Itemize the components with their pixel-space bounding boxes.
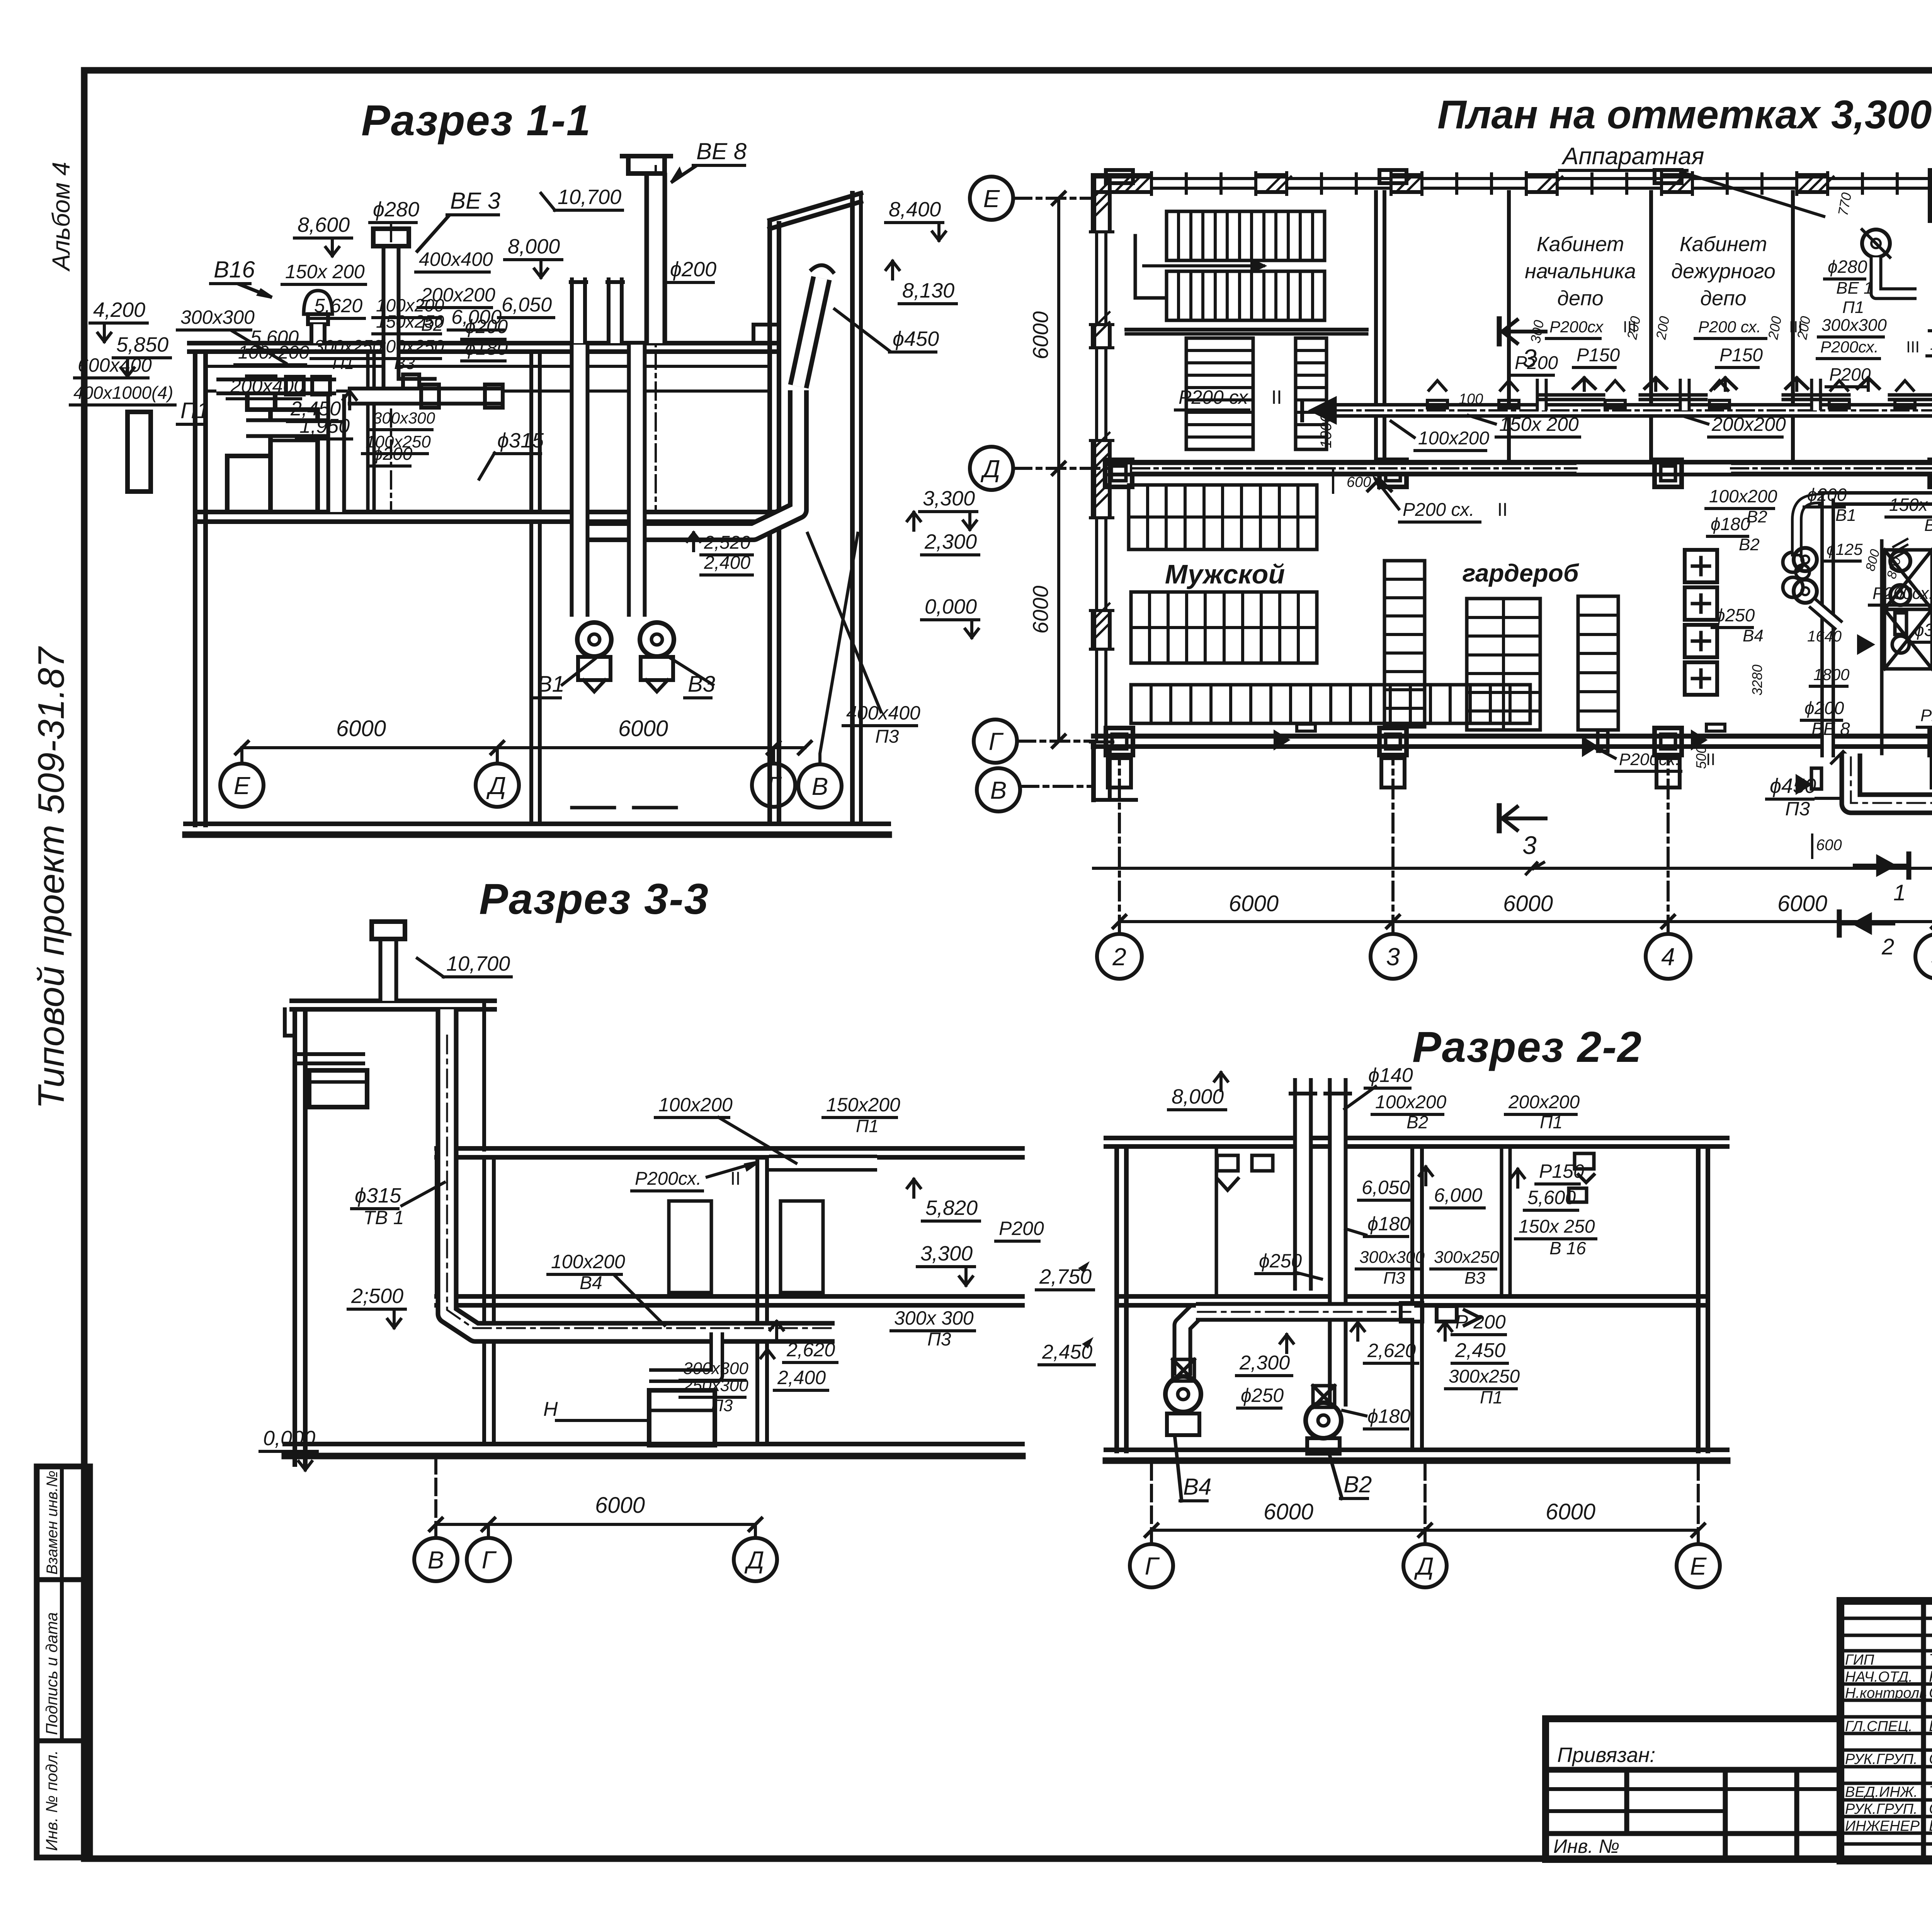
- svg-text:Слободяник: Слободяник: [1929, 1800, 1932, 1817]
- plan centerline dashdot verticals inside: [1094, 867, 1932, 870]
- svg-text:Слободяник: Слободяник: [1929, 1684, 1932, 1701]
- svg-text:В2: В2: [1739, 535, 1760, 554]
- svg-text:ВЕ 8: ВЕ 8: [696, 138, 747, 164]
- title block signature table verticals: [1921, 1601, 1926, 1861]
- svg-text:6000: 6000: [1264, 1499, 1313, 1524]
- svg-text:6000: 6000: [1777, 891, 1827, 916]
- cluster duct elbow arc: [1797, 498, 1818, 551]
- svg-text:ϕ180: ϕ180: [465, 337, 508, 359]
- svg-text:Разрез 2-2: Разрез 2-2: [1412, 1023, 1642, 1071]
- duct VE1 drop: [1876, 257, 1917, 294]
- svg-text:100х200: 100х200: [551, 1251, 625, 1272]
- cut mark 2 bottom tail: [1839, 922, 1893, 925]
- washstand plus boxes muzhskoy: [1685, 550, 1717, 582]
- svg-text:2,400: 2,400: [777, 1367, 826, 1388]
- section 3-3 ground floor: [285, 1442, 1022, 1446]
- corridor duct centerline: [1335, 409, 1932, 412]
- svg-text:Альбом 4: Альбом 4: [47, 162, 75, 272]
- svg-text:Р150: Р150: [1539, 1160, 1584, 1182]
- svg-text:300х250: 300х250: [314, 336, 383, 356]
- svg-text:II: II: [1497, 500, 1508, 520]
- lockers garderob 1: [1467, 599, 1540, 730]
- suspended ceiling lines 1-1: [207, 365, 767, 368]
- section 1-1 left wall: [193, 352, 197, 825]
- section 1-1 interior column E side: [366, 352, 370, 512]
- svg-text:Инв. №: Инв. №: [1553, 1835, 1619, 1857]
- svg-text:РУК.ГРУП.: РУК.ГРУП.: [1845, 1751, 1918, 1767]
- svg-text:Н: Н: [543, 1398, 558, 1420]
- column square D-3: [1379, 460, 1406, 487]
- svg-text:2,450: 2,450: [1455, 1339, 1505, 1362]
- svg-text:100х200: 100х200: [1375, 1092, 1446, 1112]
- plan top wall hatching: [1115, 177, 1130, 192]
- svg-text:ϕ315: ϕ315: [497, 429, 544, 452]
- duct drop to lower floor near left: [327, 394, 346, 512]
- svg-text:Д: Д: [744, 1546, 764, 1574]
- suspended unit box s33: [309, 1070, 367, 1107]
- svg-text:Е: Е: [1690, 1552, 1707, 1580]
- svg-text:ϕ180: ϕ180: [1367, 1213, 1410, 1235]
- svg-text:Троянова: Троянова: [1929, 1783, 1932, 1800]
- supply duct from P1: [246, 418, 336, 438]
- svg-text:В2: В2: [1344, 1471, 1372, 1497]
- svg-text:2,520: 2,520: [704, 532, 750, 553]
- svg-text:П3: П3: [875, 726, 899, 747]
- upper diffuser boxes s22: [1217, 1155, 1238, 1171]
- svg-text:200х400: 200х400: [230, 375, 304, 397]
- section 2-2 partition left upper: [1215, 1146, 1218, 1296]
- svg-text:ϕ125: ϕ125: [1827, 540, 1863, 558]
- svg-text:2: 2: [1881, 934, 1894, 959]
- svg-text:3,300: 3,300: [920, 1242, 973, 1265]
- plan left wall lower corner: [1091, 747, 1096, 800]
- svg-text:300х 300: 300х 300: [894, 1307, 974, 1329]
- plan left wall windows: [1090, 232, 1113, 325]
- ducts S-drop through floor V3: [627, 345, 647, 617]
- svg-text:НАЧ.ОТД.: НАЧ.ОТД.: [1845, 1669, 1913, 1685]
- section 3-3 roof stack: [379, 939, 398, 1001]
- svg-text:6000: 6000: [1503, 891, 1553, 916]
- stair hall lower flight: [1167, 271, 1325, 320]
- svg-text:В4: В4: [1183, 1474, 1211, 1500]
- svg-text:3,300: 3,300: [923, 487, 975, 510]
- svg-text:400х400: 400х400: [846, 702, 920, 724]
- svg-text:Р200сх.: Р200сх.: [1872, 584, 1932, 603]
- ducts S-drop through floor V1: [570, 345, 590, 617]
- stair hall boundary: [1126, 328, 1367, 332]
- privyazan table: [1546, 1719, 1840, 1859]
- svg-text:Р200сх: Р200сх: [1549, 318, 1604, 336]
- svg-text:Р200сх.: Р200сх.: [1619, 750, 1680, 769]
- plan top exterior wall: [1094, 173, 1932, 179]
- svg-text:6,000: 6,000: [1434, 1184, 1482, 1206]
- lockers vertical strip center: [1384, 561, 1425, 727]
- axis circle V: [798, 764, 842, 808]
- mushroom vent V16: [304, 291, 332, 314]
- svg-text:П1: П1: [1540, 1112, 1563, 1132]
- wash fixtures cluster: [1783, 552, 1803, 572]
- plan partition kab1: [1507, 192, 1511, 462]
- plan corridor wall on axis D: [1110, 460, 1932, 464]
- svg-text:Н.контроль: Н.контроль: [1845, 1685, 1927, 1701]
- svg-text:ϕ140: ϕ140: [1368, 1064, 1413, 1087]
- fan pedestals: [580, 678, 611, 682]
- lower duct run at 2.300 level: [1182, 1312, 1196, 1376]
- stack centerlines 1-1: [655, 166, 657, 510]
- svg-text:Мужской: Мужской: [1165, 559, 1285, 589]
- svg-text:В: В: [812, 772, 828, 800]
- svg-text:ϕ450: ϕ450: [893, 327, 939, 350]
- svg-text:300х300: 300х300: [180, 306, 255, 328]
- svg-text:Г: Г: [989, 728, 1004, 755]
- fan V2 s22: [1306, 1403, 1341, 1438]
- axis circle D s33: [734, 1538, 777, 1581]
- roof stack small 2: [607, 277, 624, 343]
- duct 100x200 horizontal at ceiling: [769, 1155, 877, 1172]
- fan V3: [640, 623, 674, 657]
- section 1-1 tall bay right wall: [767, 223, 772, 824]
- svg-text:П1: П1: [332, 354, 354, 373]
- x-chamber left: [1884, 550, 1932, 609]
- svg-text:300х300: 300х300: [683, 1359, 748, 1378]
- svg-text:ϕ280: ϕ280: [1828, 257, 1867, 277]
- svg-text:Типовой проект 509-31.87: Типовой проект 509-31.87: [31, 646, 72, 1109]
- svg-text:Взамен инв.№: Взамен инв.№: [44, 1471, 61, 1575]
- axis circle G: [752, 764, 795, 807]
- svg-text:Разрез 3-3: Разрез 3-3: [479, 875, 709, 923]
- svg-text:1000: 1000: [1318, 414, 1335, 448]
- plan left vertical dim line: [1057, 198, 1060, 741]
- upper duct run 300x300 to V16: [216, 378, 336, 395]
- svg-text:П1: П1: [180, 398, 209, 423]
- axis circle D s22: [1403, 1544, 1447, 1587]
- svg-text:В2: В2: [1406, 1112, 1428, 1132]
- svg-text:Г: Г: [767, 772, 782, 799]
- svg-text:ϕ200: ϕ200: [1804, 698, 1844, 718]
- svg-text:100х200: 100х200: [1709, 486, 1777, 506]
- svg-text:В1: В1: [1924, 516, 1932, 535]
- svg-text:Разрез 1-1: Разрез 1-1: [361, 96, 591, 145]
- svg-text:Инв. № подл.: Инв. № подл.: [43, 1750, 61, 1851]
- svg-text:В3: В3: [1464, 1269, 1485, 1288]
- title block signature rows: [1840, 1617, 1932, 1620]
- svg-text:Р 200: Р 200: [1455, 1311, 1506, 1333]
- plan left wall hatching: [1094, 182, 1109, 197]
- vent stack VE8 with cap: [645, 173, 667, 343]
- axis circle 3: [1371, 934, 1415, 979]
- svg-text:Р200: Р200: [1515, 353, 1558, 373]
- svg-text:150х 200: 150х 200: [285, 261, 365, 282]
- svg-text:10,700: 10,700: [558, 185, 621, 209]
- svg-text:ГИП: ГИП: [1845, 1652, 1874, 1668]
- lockers bottom long row: [1131, 685, 1530, 723]
- svg-text:ВЕД.ИНЖ.: ВЕД.ИНЖ.: [1845, 1784, 1918, 1800]
- section 1-1 tall bay slanted roof: [770, 193, 861, 220]
- svg-text:100х200: 100х200: [238, 342, 309, 363]
- suspended beam under tall roof s33: [295, 1052, 363, 1056]
- svg-text:Воронина: Воронина: [1929, 1817, 1932, 1834]
- roof stacks 2-2: [1293, 1078, 1313, 1142]
- svg-text:ϕ315: ϕ315: [1914, 620, 1932, 640]
- svg-text:150х 200: 150х 200: [1499, 413, 1579, 435]
- plan partition kab3: [1791, 192, 1795, 462]
- vent stack VE3 with cap: [382, 246, 401, 343]
- secondary stair combs: [1186, 338, 1253, 449]
- duct header boxes s22: [1401, 1303, 1422, 1322]
- svg-text:300х300: 300х300: [373, 409, 435, 427]
- section 2-2 ground: [1106, 1448, 1727, 1452]
- svg-text:2,400: 2,400: [704, 553, 750, 573]
- svg-text:Шапильский: Шапильский: [1929, 1718, 1932, 1735]
- svg-text:0,000: 0,000: [263, 1427, 315, 1450]
- svg-text:10,700: 10,700: [446, 952, 510, 975]
- svg-text:ϕ250: ϕ250: [1715, 605, 1755, 625]
- roof overhang left: [285, 1009, 295, 1036]
- section 1-1 roof slab: [189, 341, 777, 345]
- stair landing arrow: [1135, 236, 1167, 298]
- fan V1: [577, 623, 611, 657]
- svg-text:100х200: 100х200: [1418, 428, 1489, 449]
- svg-text:3: 3: [1386, 943, 1400, 971]
- right diffuser box s22: [1575, 1153, 1594, 1169]
- section 3-3 mid floor: [437, 1294, 1022, 1299]
- svg-text:ϕ280: ϕ280: [373, 198, 419, 221]
- branch duct stubs to rooms: [1536, 379, 1548, 410]
- svg-text:6000: 6000: [1229, 891, 1279, 916]
- svg-text:В4: В4: [1743, 626, 1764, 645]
- svg-text:В4: В4: [580, 1273, 602, 1293]
- duct drop long s22: [1328, 1142, 1348, 1407]
- svg-text:400х1000(4): 400х1000(4): [73, 383, 173, 403]
- svg-text:П1: П1: [856, 1116, 879, 1136]
- svg-text:150х250: 150х250: [376, 311, 444, 332]
- column square D-2: [1105, 460, 1132, 487]
- riser triangles G wall: [1275, 732, 1287, 748]
- svg-text:200х200: 200х200: [1711, 413, 1786, 435]
- svg-text:600: 600: [1347, 474, 1371, 490]
- column stubs below G axis: [1108, 758, 1131, 788]
- svg-text:150х 250: 150х 250: [1889, 495, 1932, 515]
- svg-text:300х250: 300х250: [1434, 1248, 1499, 1267]
- section 2-2 mid floor: [1117, 1294, 1708, 1299]
- svg-text:В3: В3: [394, 354, 415, 373]
- svg-text:Р200: Р200: [999, 1218, 1044, 1239]
- section 2-2 column D: [1410, 1146, 1414, 1450]
- lockers row 2 muzhskoy: [1131, 592, 1317, 663]
- svg-text:ϕ180: ϕ180: [1367, 1405, 1410, 1427]
- big duct fi450 from plan to tail: [1851, 754, 1932, 983]
- supply unit P1 top right: [1930, 186, 1932, 221]
- svg-text:8,400: 8,400: [889, 198, 941, 221]
- svg-text:6000: 6000: [595, 1493, 645, 1518]
- cut mark 1 bottom tail: [1855, 864, 1909, 867]
- svg-text:Г: Г: [482, 1546, 497, 1574]
- fitting diagonal small duct: [1812, 603, 1839, 626]
- svg-text:ϕ315: ϕ315: [355, 1184, 401, 1207]
- svg-text:Розенталь: Розенталь: [1929, 1668, 1932, 1685]
- svg-text:500: 500: [1693, 746, 1709, 769]
- svg-text:5,600: 5,600: [1527, 1187, 1576, 1208]
- svg-text:6000: 6000: [1028, 311, 1053, 359]
- svg-text:Р200сх.: Р200сх.: [1920, 706, 1932, 725]
- svg-text:2,300: 2,300: [924, 530, 977, 553]
- svg-text:В: В: [990, 776, 1007, 804]
- axis circle V s33: [414, 1538, 457, 1581]
- svg-text:П3: П3: [1383, 1269, 1405, 1288]
- svg-text:гардероб: гардероб: [1463, 559, 1580, 587]
- lockers row 1 muzhskoy: [1129, 485, 1317, 549]
- svg-text:2,620: 2,620: [786, 1339, 835, 1361]
- svg-text:1,950: 1,950: [299, 415, 350, 437]
- svg-text:8,000: 8,000: [508, 235, 560, 258]
- svg-text:4,200: 4,200: [93, 298, 145, 321]
- diffuser triangle corridor mid: [1368, 479, 1391, 491]
- roof stack small 1: [570, 277, 587, 343]
- svg-text:3280: 3280: [1749, 665, 1765, 696]
- svg-text:6,050: 6,050: [502, 294, 552, 316]
- svg-text:Привязан:: Привязан:: [1557, 1744, 1655, 1767]
- wc partition lines: [1880, 541, 1884, 754]
- axis circle E s22: [1677, 1544, 1720, 1587]
- svg-text:Аппаратная: Аппаратная: [1561, 143, 1704, 170]
- section 1-1 diagonal duct fi450: [798, 278, 821, 386]
- svg-text:Е: Е: [983, 185, 1000, 213]
- svg-text:П3: П3: [1785, 798, 1810, 820]
- svg-text:100х200: 100х200: [1930, 336, 1932, 353]
- diffuser triangles kab rooms: [1573, 378, 1595, 388]
- mid level duct run 1-1: [348, 387, 502, 406]
- column square D-4: [1655, 460, 1682, 487]
- unit H box: [649, 1390, 715, 1445]
- risers on G wall: [1297, 724, 1315, 731]
- svg-text:Р200: Р200: [1829, 364, 1871, 384]
- svg-text:8,600: 8,600: [298, 213, 350, 236]
- bellmouth at duct start: [1312, 399, 1335, 422]
- axis circle 2: [1097, 934, 1142, 979]
- section 2-2 right wall: [1696, 1146, 1701, 1451]
- svg-text:6000: 6000: [618, 716, 668, 741]
- svg-text:Р200сх.: Р200сх.: [1820, 338, 1879, 356]
- svg-text:ϕ200: ϕ200: [670, 258, 716, 281]
- section 1-1 eaves step: [753, 325, 779, 343]
- svg-text:ТВ 1: ТВ 1: [363, 1207, 404, 1228]
- svg-text:ВЕ 1: ВЕ 1: [1836, 279, 1873, 298]
- section 1-1 ground floor: [185, 822, 889, 826]
- svg-text:Д: Д: [980, 455, 1000, 483]
- svg-text:ϕ250: ϕ250: [1259, 1250, 1302, 1272]
- svg-text:6000: 6000: [1546, 1499, 1595, 1524]
- section 1-1 tall bay far wall V: [850, 193, 855, 824]
- fan V4 s22: [1165, 1376, 1201, 1412]
- svg-text:6000: 6000: [1028, 585, 1053, 634]
- svg-text:Р200 сх.: Р200 сх.: [1403, 500, 1475, 520]
- svg-text:2,300: 2,300: [1239, 1352, 1290, 1374]
- svg-text:II: II: [1271, 386, 1282, 408]
- svg-text:ϕ180: ϕ180: [1711, 514, 1750, 534]
- upper interior beam: [435, 1148, 439, 1296]
- cluster duct vertical VE8 zone: [1818, 491, 1932, 506]
- tall bay vertical duct fi450: [583, 390, 798, 532]
- section 3-3 door openings: [669, 1201, 711, 1293]
- plan bottom axis dim line: [1119, 920, 1932, 923]
- svg-text:В 16: В 16: [1549, 1238, 1586, 1258]
- section 2-2 partition upper: [1500, 1146, 1503, 1296]
- svg-text:8,000: 8,000: [1172, 1085, 1224, 1108]
- axis circle G s22: [1130, 1544, 1173, 1587]
- section 1-1 dimension line: [242, 746, 805, 749]
- stair hall upper flight: [1167, 211, 1325, 260]
- svg-text:100: 100: [1459, 391, 1483, 407]
- svg-text:Подпись и дата: Подпись и дата: [43, 1612, 61, 1735]
- svg-text:ϕ200: ϕ200: [1807, 485, 1847, 505]
- svg-text:1640: 1640: [1807, 628, 1842, 645]
- svg-text:6,050: 6,050: [1362, 1177, 1410, 1198]
- svg-text:Слободяник: Слободяник: [1929, 1750, 1932, 1767]
- svg-text:П3: П3: [927, 1329, 951, 1350]
- svg-text:2: 2: [1112, 943, 1126, 971]
- svg-text:ϕ200: ϕ200: [465, 316, 508, 337]
- svg-text:II: II: [730, 1169, 741, 1189]
- svg-text:Д: Д: [486, 772, 506, 799]
- svg-text:1800: 1800: [1813, 665, 1850, 684]
- section 3-3 dim line: [436, 1523, 755, 1526]
- svg-text:300х250: 300х250: [376, 336, 444, 356]
- svg-text:РУК.ГРУП.: РУК.ГРУП.: [1845, 1801, 1918, 1817]
- svg-text:Р200 сх: Р200 сх: [1179, 386, 1249, 408]
- svg-text:депо: депо: [1557, 287, 1604, 310]
- section 2-2 left wall: [1114, 1146, 1119, 1451]
- svg-text:Кабинет: Кабинет: [1537, 233, 1624, 256]
- svg-text:300х300: 300х300: [1359, 1248, 1425, 1267]
- svg-text:ВЕ 3: ВЕ 3: [450, 188, 500, 214]
- svg-text:5,820: 5,820: [925, 1196, 978, 1220]
- svg-text:200х200: 200х200: [1508, 1092, 1580, 1112]
- section 2-2 roof slab: [1106, 1136, 1727, 1140]
- duct along D wall lower corridor: [1132, 462, 1577, 475]
- fan VE1 symbol: [1862, 230, 1890, 257]
- svg-text:В: В: [428, 1546, 444, 1574]
- svg-text:100х200: 100х200: [658, 1094, 733, 1116]
- svg-text:депо: депо: [1700, 287, 1747, 310]
- duct centerline D wall: [1132, 467, 1577, 469]
- svg-text:П1: П1: [1842, 298, 1864, 317]
- axis circle G s33: [467, 1538, 510, 1581]
- svg-text:ϕ250: ϕ250: [1241, 1385, 1284, 1406]
- svg-text:2;500: 2;500: [351, 1284, 403, 1308]
- bottom-left stamp column: [37, 1466, 90, 1857]
- svg-text:0,000: 0,000: [925, 595, 977, 618]
- svg-text:6000: 6000: [336, 716, 386, 741]
- air handling unit P1 left: [270, 410, 318, 512]
- svg-text:начальника: начальника: [1525, 260, 1636, 283]
- svg-text:В16: В16: [214, 257, 255, 282]
- section 3-3 left wall: [293, 1009, 297, 1465]
- svg-text:ϕ200: ϕ200: [373, 444, 413, 464]
- svg-text:8,130: 8,130: [902, 279, 954, 302]
- svg-text:150х 250: 150х 250: [1519, 1216, 1595, 1237]
- axis circle E: [220, 764, 264, 807]
- svg-text:Е: Е: [234, 772, 251, 799]
- svg-text:В1: В1: [537, 672, 565, 697]
- small duct drop s33: [649, 1332, 717, 1376]
- duct elbow at VE3 drop: [391, 343, 437, 386]
- vertical duct fi315 TV1: [447, 1009, 835, 1332]
- branch header plates kab: [1538, 393, 1604, 397]
- plan left axis circles: [970, 177, 1013, 220]
- section 3-3 ceiling slab: [437, 1146, 1022, 1151]
- svg-text:Кабинет: Кабинет: [1680, 233, 1767, 256]
- column square D-5: [1930, 460, 1932, 487]
